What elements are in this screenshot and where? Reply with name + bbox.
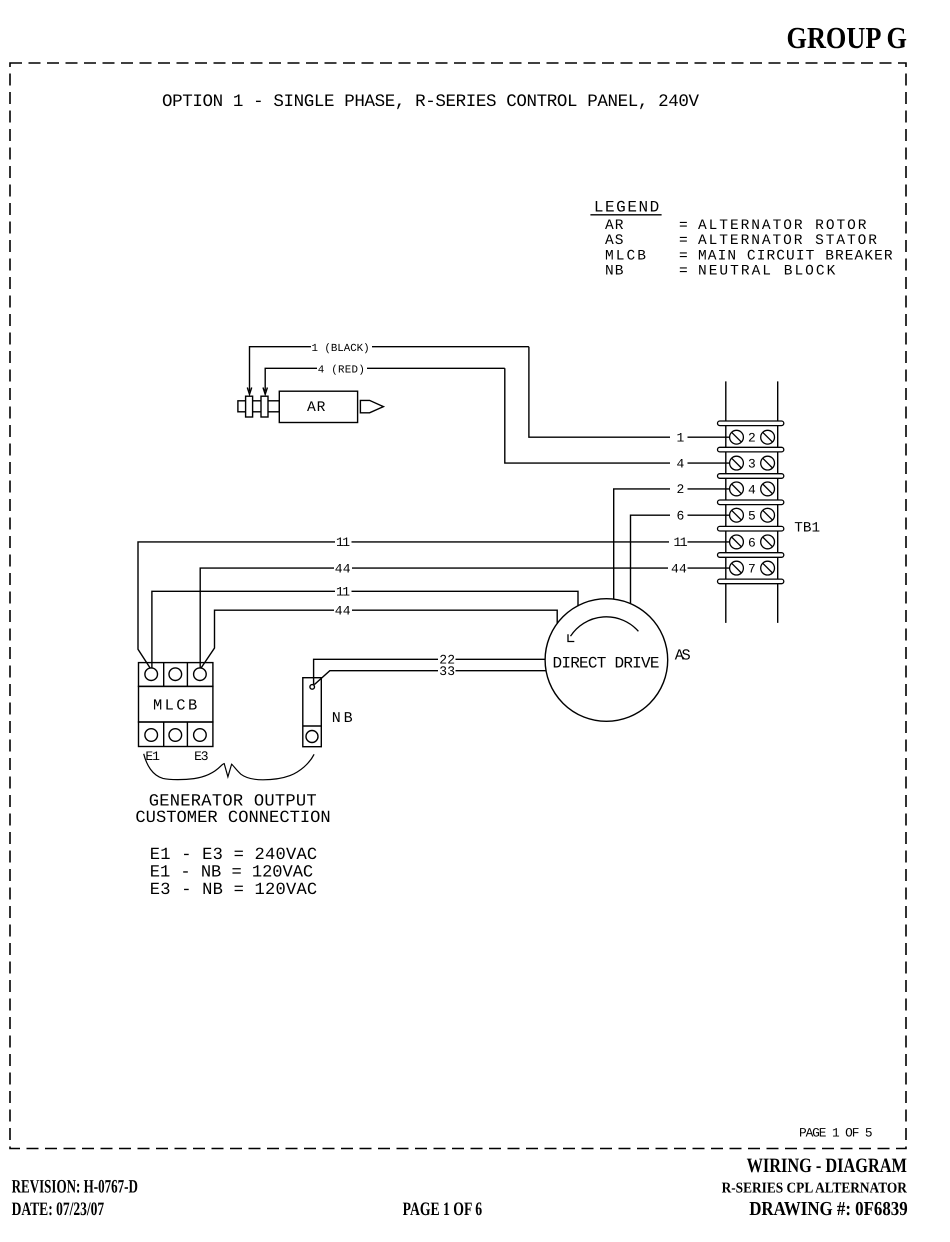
svg-text:REVISION: H-0767-D: REVISION: H-0767-D — [12, 1176, 138, 1197]
wire 22 NB to AS — [314, 659, 546, 684]
wire 2 TB1-4 to AS — [614, 489, 730, 599]
svg-text:44: 44 — [671, 561, 687, 576]
svg-text:4 (RED): 4 (RED) — [318, 364, 365, 376]
legend heading LEGEND — [590, 199, 661, 217]
terminal block TB1 rails — [726, 381, 778, 623]
svg-text:AR: AR — [307, 400, 326, 416]
TB1 terminal 6 screws — [730, 535, 775, 549]
svg-text:ALTERNATOR STATOR: ALTERNATOR STATOR — [698, 233, 877, 249]
svg-text:2: 2 — [677, 482, 685, 497]
TB1 terminal 3 screws — [730, 456, 775, 470]
TB1 terminal 5 screws — [730, 508, 775, 522]
svg-text:WIRING - DIAGRAM: WIRING - DIAGRAM — [747, 1155, 907, 1177]
svg-text:TB1: TB1 — [794, 521, 820, 537]
legend AR — [605, 218, 867, 234]
svg-text:PAGE 1 OF 5: PAGE 1 OF 5 — [799, 1126, 873, 1141]
svg-text:MLCB: MLCB — [605, 249, 646, 265]
svg-text:4: 4 — [677, 456, 685, 471]
svg-text:MAIN CIRCUIT BREAKER: MAIN CIRCUIT BREAKER — [698, 249, 893, 265]
wire 33 NB to AS — [314, 671, 546, 685]
svg-text:4: 4 — [748, 482, 756, 497]
svg-text:E1: E1 — [145, 749, 160, 764]
svg-text:E3 - NB = 120VAC: E3 - NB = 120VAC — [150, 881, 317, 900]
svg-text:5: 5 — [748, 509, 756, 524]
svg-text:AS: AS — [675, 647, 691, 665]
svg-text:OPTION 1 - SINGLE PHASE, R-SER: OPTION 1 - SINGLE PHASE, R-SERIES CONTRO… — [162, 92, 699, 112]
svg-text:DIRECT DRIVE: DIRECT DRIVE — [553, 654, 660, 672]
svg-text:CUSTOMER CONNECTION: CUSTOMER CONNECTION — [135, 809, 330, 828]
TB1 terminal 7 screws — [730, 561, 775, 575]
wire 6 TB1-5 to AS — [631, 515, 730, 603]
wire 44 MLCB-T3 to AS — [201, 610, 557, 667]
svg-text:E1 - E3 = 240VAC: E1 - E3 = 240VAC — [150, 846, 317, 865]
svg-text:ALTERNATOR ROTOR: ALTERNATOR ROTOR — [698, 218, 867, 234]
TB1 terminal 2 screws — [730, 430, 775, 444]
wire 11 MLCB-T1 to TB1-6 — [138, 542, 730, 668]
svg-text:3: 3 — [748, 457, 756, 472]
svg-text:NEUTRAL BLOCK: NEUTRAL BLOCK — [698, 263, 836, 279]
brace customer connection — [144, 754, 314, 780]
wire 44 MLCB-T3 to TB1-7 — [200, 568, 730, 668]
svg-text:6: 6 — [677, 509, 685, 524]
svg-text:11: 11 — [674, 535, 688, 550]
svg-text:PAGE 1 OF 6: PAGE 1 OF 6 — [403, 1199, 483, 1220]
svg-text:E3: E3 — [194, 749, 209, 764]
TB1 separator bars — [718, 421, 784, 584]
svg-text:=: = — [679, 233, 688, 249]
svg-text:44: 44 — [335, 561, 351, 576]
svg-text:2: 2 — [748, 431, 756, 446]
svg-text:1 (BLACK): 1 (BLACK) — [312, 343, 370, 355]
TB1 terminal 4 screws — [730, 482, 775, 496]
alternator stator AS circle — [545, 599, 668, 722]
svg-text:E1 - NB = 120VAC: E1 - NB = 120VAC — [150, 864, 313, 883]
wire 11 MLCB-T1 to AS — [152, 591, 578, 668]
svg-text:7: 7 — [748, 562, 756, 577]
svg-text:11: 11 — [336, 535, 350, 550]
svg-text:R-SERIES CPL ALTERNATOR: R-SERIES CPL ALTERNATOR — [722, 1181, 907, 1197]
alternator rotor AR body — [238, 391, 384, 422]
svg-text:AS: AS — [605, 233, 623, 249]
neutral block NB — [303, 678, 322, 747]
wire 1 (BLACK) AR to TB1-2 — [247, 347, 730, 438]
svg-text:GROUP G: GROUP G — [787, 21, 908, 55]
svg-text:=: = — [679, 263, 688, 279]
svg-text:AR: AR — [605, 218, 624, 234]
svg-text:NB: NB — [605, 263, 624, 279]
svg-text:DATE: 07/23/07: DATE: 07/23/07 — [12, 1199, 105, 1220]
svg-text:=: = — [679, 218, 688, 234]
svg-text:DRAWING #: 0F6839: DRAWING #: 0F6839 — [749, 1198, 908, 1220]
svg-text:11: 11 — [336, 585, 350, 600]
legend MLCB — [605, 249, 893, 265]
svg-text:44: 44 — [335, 604, 351, 619]
legend NB — [605, 263, 836, 279]
wire 4 (RED) AR to TB1-3 — [263, 368, 730, 463]
svg-text:1: 1 — [677, 431, 685, 446]
AS rotation arrow — [568, 617, 638, 642]
svg-text:6: 6 — [748, 535, 756, 550]
svg-text:33: 33 — [439, 664, 455, 679]
svg-text:=: = — [679, 249, 688, 265]
circuit breaker MLCB — [139, 663, 213, 747]
legend AS — [605, 233, 877, 249]
